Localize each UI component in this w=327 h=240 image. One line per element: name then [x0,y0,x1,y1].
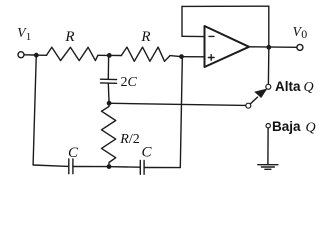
terminal V1 [18,52,24,58]
svg-text:Q: Q [304,80,314,95]
wire [182,35,205,37]
wire [24,54,34,56]
wire [98,54,107,56]
wire [33,58,36,165]
wire [170,55,179,58]
wire [267,128,269,164]
node B [107,101,112,106]
wire [182,5,269,7]
wire [268,6,270,45]
svg-text:Baja: Baja [272,119,301,134]
svg-text:R/2: R/2 [119,132,139,147]
wire [180,59,182,168]
capacitor C2 [140,161,144,175]
wire [39,54,47,56]
wire [267,50,269,85]
node O [266,45,271,50]
wire [144,167,180,169]
terminal V0 [297,44,303,50]
wire [73,166,107,168]
switch contact Baja [266,124,270,128]
wire [112,54,122,56]
wire [112,103,246,105]
wire [33,165,69,166]
capacitor 2C [101,79,117,83]
svg-text:0: 0 [301,27,307,41]
wire [111,166,140,169]
svg-text:Alta: Alta [275,79,301,94]
svg-text:C: C [142,145,153,161]
wire [107,83,110,101]
op-amp U1 [205,26,250,67]
svg-text:R: R [140,29,150,45]
node A3 [179,54,184,59]
node A2 [107,53,112,58]
svg-text:2C: 2C [121,75,138,90]
resistor R2 [121,47,170,61]
wire [107,58,109,80]
resistor R1 [47,47,98,60]
svg-text:C: C [68,145,79,161]
node A1 [34,53,39,58]
node C [107,164,112,169]
capacitor C1 [69,159,73,174]
wire [249,46,297,49]
ground [258,165,278,170]
resistor R/2 [102,106,116,165]
switch pole [246,103,251,108]
svg-text:R: R [64,29,74,45]
svg-text:Q: Q [306,120,316,135]
svg-text:1: 1 [26,31,32,43]
switch contact Alta [266,84,271,89]
wire [184,56,205,58]
switch arm SW1 [250,89,267,105]
wire [181,6,183,36]
